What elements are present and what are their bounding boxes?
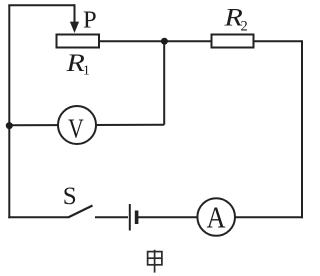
wire right vertical — [301, 40, 303, 218]
svg-text:S: S — [63, 183, 77, 210]
voltmeter V1 circle — [58, 106, 96, 144]
resistor R2 — [212, 35, 254, 48]
svg-text:P: P — [83, 7, 97, 34]
wire ammeter to bottom right — [216, 216, 303, 218]
wire left vertical — [8, 5, 10, 218]
wire battery to ammeter — [138, 216, 216, 218]
wire top horizontal — [8, 4, 74, 6]
wire voltmeter branch horizontal — [9, 124, 164, 126]
wire bottom left to switch — [8, 216, 68, 218]
ammeter A1 circle — [197, 198, 235, 236]
battery cell short plate — [135, 211, 139, 225]
svg-text:A: A — [206, 200, 225, 234]
resistor R1 (rheostat body) — [57, 35, 100, 48]
wire R1 to junction — [99, 40, 212, 42]
wire R2 to right corner — [254, 40, 303, 42]
arrowhead of wiper P — [70, 22, 79, 33]
switch S blade — [68, 206, 93, 218]
wire wiper drop — [74, 4, 76, 23]
wire switch to battery — [95, 216, 128, 218]
node junction dot top — [161, 38, 168, 45]
label jia (caption) drawn strokes — [148, 250, 162, 273]
svg-text:2: 2 — [241, 18, 248, 34]
svg-text:V: V — [68, 114, 84, 144]
svg-text:1: 1 — [83, 63, 90, 78]
wire voltmeter branch vertical — [163, 41, 165, 125]
battery cell long plate — [129, 204, 131, 231]
node junction dot left — [6, 122, 13, 129]
